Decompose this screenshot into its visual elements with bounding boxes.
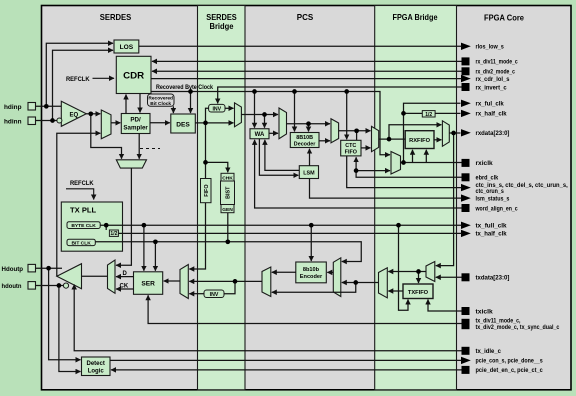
svg-text:1/2: 1/2 — [110, 231, 117, 237]
wire WA down to LSM — [259, 139, 298, 176]
svg-text:rxiclk: rxiclk — [476, 160, 494, 167]
block 8B10B Decoder — [290, 133, 319, 148]
svg-text:Hdoutp: Hdoutp — [2, 266, 24, 273]
wire byte clock drop to WA — [254, 92, 256, 128]
mux D (rx bridge mux) — [235, 103, 242, 127]
svg-text:LOS: LOS — [120, 44, 134, 51]
wire txdata bypass to mux F — [272, 283, 356, 293]
block CHK — [221, 173, 234, 181]
wire LSM up to decoder — [309, 149, 311, 166]
wire 1/2 out to tx_half_clk — [118, 232, 461, 234]
wire tx_idle_c to driver — [74, 285, 461, 351]
svg-text:TXFIFO: TXFIFO — [408, 290, 429, 296]
wire byte clk tap to mux B — [130, 264, 132, 266]
wire mux 5 out to rxdata — [449, 132, 460, 134]
wire PD/Sampler to DES — [150, 122, 170, 124]
svg-text:DES: DES — [176, 122, 190, 129]
wire data drop to WA — [264, 115, 266, 128]
pad hdoutp — [28, 264, 36, 272]
wire recovered byte clock trunk — [151, 92, 390, 155]
pad hdinp — [28, 103, 36, 111]
port ebrd_clk — [462, 173, 499, 181]
wire byte clock drop to DES — [190, 92, 192, 114]
port rx_invert_c — [462, 83, 508, 91]
svg-text:RXFIFO: RXFIFO — [409, 138, 430, 144]
svg-text:CK: CK — [120, 284, 129, 290]
mux E (encoder input mux) — [333, 258, 341, 297]
block TXFIFO — [403, 284, 433, 299]
svg-text:Recovered: Recovered — [148, 95, 173, 101]
svg-text:CDR: CDR — [123, 70, 144, 81]
block LOS — [114, 40, 139, 53]
wire byte clk to TXFIFO bottom — [399, 225, 409, 310]
svg-text:SERDES: SERDES — [206, 13, 237, 22]
wire mux 2 out to mux 3 — [339, 130, 371, 132]
port pcie_con_s — [461, 357, 543, 365]
svg-text:rxdata[23:0]: rxdata[23:0] — [476, 130, 510, 137]
svg-text:tx_div2_mode_c, tx_sync_dual_c: tx_div2_mode_c, tx_sync_dual_c — [476, 324, 560, 331]
svg-text:BIST: BIST — [225, 186, 231, 199]
wire LSM status to lsm_status_s — [310, 179, 462, 199]
svg-text:hdinp: hdinp — [4, 104, 22, 111]
wire byte clk drop to encoder — [310, 225, 312, 261]
wire mux 6 out to mux 7 — [388, 271, 426, 273]
funnel mux below PD/Sampler — [116, 160, 146, 168]
wire byte clock drop to CTC FIFO — [346, 92, 348, 140]
wire mux C out to SER — [164, 280, 180, 282]
block Detect Logic — [82, 357, 111, 376]
svg-text:TX PLL: TX PLL — [70, 206, 97, 215]
block 1/2 divider (rx) — [422, 111, 435, 118]
block CDR — [116, 56, 151, 93]
port rlos_low_s — [461, 43, 504, 51]
wire serial loopback into mux A — [57, 133, 101, 276]
svg-text:SERDES: SERDES — [100, 12, 132, 22]
mux 3 (ctc bypass) — [372, 126, 379, 151]
wire RXFIFO out to mux 5 — [434, 139, 441, 141]
block BIT CLK — [67, 239, 95, 246]
svg-text:FIFO: FIFO — [345, 150, 357, 156]
wire hdoutp sense down to Detect Logic — [49, 268, 81, 360]
block BYTE CLK — [67, 222, 100, 229]
FPGA Bridge green band — [375, 6, 457, 390]
mux 6 (txfifo input mux) — [426, 262, 435, 282]
wire rx_invert_c to INV rx — [218, 87, 462, 103]
svg-text:tx_full_clk: tx_full_clk — [476, 223, 508, 230]
svg-text:pcie_det_en_c, pcie_ct_c: pcie_det_en_c, pcie_ct_c — [476, 367, 544, 374]
wire txiclk to TXFIFO — [428, 300, 462, 312]
port txdata[23:0] — [462, 273, 510, 281]
wire mux F out to mux C — [189, 280, 262, 282]
SERDES Bridge green band — [198, 6, 246, 390]
wire rx_half_clk through divider — [404, 112, 461, 114]
mux C (SER input mux) — [180, 265, 188, 299]
wire hdinp sense up to LOS — [46, 43, 113, 106]
wire txdata to mux 6 — [436, 276, 462, 278]
port tx_full_clk — [461, 222, 507, 230]
svg-text:1/2: 1/2 — [425, 112, 432, 118]
wire DES loopback trunk to FIFO and mux C — [189, 123, 205, 269]
svg-text:REFCLK: REFCLK — [70, 180, 94, 187]
port tx_div11_mode_c — [462, 318, 560, 332]
wire DES out to mux D — [195, 122, 233, 124]
wire hdinn to EQ bubble — [36, 120, 58, 122]
svg-text:hdinn: hdinn — [4, 118, 22, 125]
mux 4 (rx clock select) — [391, 152, 401, 175]
svg-text:INV: INV — [212, 106, 221, 112]
port tx_idle_c — [462, 347, 502, 355]
port rxdata[23:0] — [461, 129, 509, 137]
svg-text:rx_ful_clk: rx_ful_clk — [476, 101, 505, 108]
svg-text:PD/: PD/ — [130, 117, 141, 124]
block 1/2 divider (tx) — [109, 230, 118, 237]
svg-text:WA: WA — [255, 132, 265, 138]
port tx_half_clk — [461, 230, 507, 238]
port rx_div11_mode_c — [462, 57, 519, 65]
wire BYTE CLK to tx_full_clk — [100, 224, 461, 226]
wire hdinp to EQ — [36, 105, 62, 107]
svg-text:GEN: GEN — [222, 207, 233, 213]
svg-text:rx_div2_mode_c: rx_div2_mode_c — [476, 69, 516, 76]
svg-text:8B10B: 8B10B — [296, 135, 313, 141]
svg-text:rlos_low_s: rlos_low_s — [476, 44, 505, 51]
wire rx_div2_mode_c to CDR — [152, 70, 462, 72]
wire REFCLK to CDR — [93, 77, 115, 79]
block CTC FIFO — [341, 140, 361, 156]
wire TXFIFO out to mux 7 — [402, 290, 404, 292]
block GEN — [221, 205, 234, 214]
svg-text:word_align_en_c: word_align_en_c — [475, 205, 518, 212]
wire bit clk drop to SER — [154, 242, 156, 271]
svg-text:Bridge: Bridge — [210, 22, 235, 31]
port pcie_det_en_c — [462, 366, 544, 374]
svg-text:CTC: CTC — [345, 143, 356, 149]
svg-text:Recovered Byte Clock: Recovered Byte Clock — [156, 84, 213, 91]
mux 5 (rxfifo bypass) — [442, 121, 449, 147]
svg-text:rx_invert_c: rx_invert_c — [476, 84, 508, 91]
svg-text:tx_idle_c: tx_idle_c — [476, 348, 502, 355]
block INV (tx loopback) — [204, 290, 224, 298]
pad hdoutn — [28, 282, 36, 290]
wire Detect Logic to pcie_con_s — [110, 359, 462, 361]
wire byte clk drop to SER — [143, 225, 145, 271]
wire driver bubble to hdoutn pad — [36, 285, 64, 287]
block DES — [171, 114, 196, 133]
wire mux 3 out to RXFIFO — [379, 138, 406, 140]
wire mux B out to driver — [82, 275, 108, 277]
wire drop to decoder top — [308, 124, 310, 132]
dashed continuation marks — [140, 148, 160, 150]
mux 7 (txfifo bypass) — [379, 268, 388, 298]
wire EQ tap down to funnel — [91, 114, 122, 159]
svg-text:rx_div11_mode_c: rx_div11_mode_c — [476, 59, 519, 66]
wire recovered bit clock to DES — [172, 106, 174, 113]
svg-text:hdoutn: hdoutn — [2, 283, 22, 290]
svg-text:rx_half_clk: rx_half_clk — [476, 111, 508, 118]
wire hdoutn sense down to Detect Logic — [59, 286, 81, 372]
wire decoder out to mux 2 — [319, 140, 330, 142]
block SER — [134, 272, 163, 295]
wire GEN down to bit clock line — [227, 213, 229, 242]
wire mux E out to encoder — [327, 271, 333, 273]
svg-text:FIFO: FIFO — [204, 184, 210, 196]
wire SER CK output to mux B — [116, 288, 134, 290]
wire PD/Sampler up to CDR — [125, 95, 127, 114]
port rx_cdr_lol_s — [461, 75, 510, 83]
wire WA out to mux 1 — [269, 132, 278, 134]
wire rxdata loopback to mux 6 — [436, 133, 454, 266]
block 8b10b Encoder — [296, 262, 327, 283]
wire byte clock drop to decoder — [294, 92, 296, 132]
wire loopback branch to CHK — [206, 162, 228, 172]
mux B (output driver mux) — [108, 260, 116, 293]
svg-text:FPGA Bridge: FPGA Bridge — [393, 13, 438, 22]
port rx_div2_mode_c — [462, 67, 516, 75]
wire BIT CLK line to mux E — [95, 242, 361, 262]
wire EQ out to mux A — [86, 113, 100, 115]
svg-text:Encoder: Encoder — [300, 274, 323, 280]
wire CDR down to PD/Sampler — [139, 94, 141, 113]
wire mux 4 out — [401, 162, 462, 164]
block PD/Sampler — [121, 114, 150, 134]
block TX PLL — [61, 202, 122, 251]
wire SER D output to mux B — [116, 276, 134, 278]
svg-text:REFCLK: REFCLK — [66, 76, 90, 83]
wire INV rx to mux D — [225, 107, 234, 109]
pad hdinn — [28, 117, 36, 125]
svg-text:SER: SER — [141, 281, 155, 288]
svg-text:INV: INV — [210, 292, 219, 298]
wire REFCLK to TX PLL — [66, 189, 94, 200]
wire mux A to PD/Sampler — [111, 122, 120, 124]
svg-text:LSM: LSM — [303, 171, 315, 177]
wire ebrd tap to mux 4 — [356, 170, 390, 172]
svg-text:tx_half_clk: tx_half_clk — [476, 231, 508, 238]
block RXFIFO — [405, 131, 434, 149]
wire tap down into INV tx — [224, 281, 235, 293]
mux A (EQ output mux) — [101, 110, 111, 139]
wire funnel output down to mux B — [116, 168, 131, 265]
port rx_ful_clk — [461, 100, 504, 108]
svg-text:lsm_status_s: lsm_status_s — [476, 195, 510, 202]
block FIFO (loopback) — [201, 179, 212, 203]
wire driver to hdoutp pad — [36, 267, 63, 269]
port rxiclk — [462, 159, 494, 167]
wire tx_div modes to SER — [148, 295, 461, 323]
wire encoder out to mux F — [272, 271, 296, 273]
svg-text:ebrd_clk: ebrd_clk — [476, 175, 499, 182]
wire ebrd_clk to CTC FIFO — [356, 157, 461, 177]
buffer EQ — [57, 101, 86, 126]
wire mux D output to mux 1 — [241, 114, 278, 116]
svg-text:BYTE CLK: BYTE CLK — [71, 223, 96, 229]
wire CTC status to ctc_ins_s — [347, 156, 462, 188]
port word_align_en_c — [462, 204, 519, 212]
svg-text:FPGA Core: FPGA Core — [484, 14, 524, 23]
mux 2 (decoder bypass) — [331, 119, 339, 143]
wire mux 7 out to mux E — [342, 282, 379, 284]
block LSM — [299, 166, 318, 179]
port ctc_ins_s — [461, 182, 568, 195]
wire byte clk drop to 1/2 — [105, 225, 107, 230]
svg-text:Logic: Logic — [88, 368, 105, 374]
svg-text:rx_cdr_lol_s: rx_cdr_lol_s — [476, 76, 510, 83]
wire CDR to rx_cdr_lol_s — [151, 78, 462, 80]
port rx_half_clk — [461, 110, 507, 118]
svg-text:8b10b: 8b10b — [303, 267, 320, 273]
block BIST — [221, 181, 235, 205]
svg-text:txiclk: txiclk — [476, 308, 494, 315]
buffer output driver triangle — [57, 264, 82, 289]
mux F (encoder bypass mux) — [262, 267, 271, 297]
wire bypass up to mux 5 — [389, 125, 441, 139]
svg-text:BIT CLK: BIT CLK — [71, 240, 91, 246]
wire DES tap up into INV rx — [206, 108, 209, 123]
svg-text:PCS: PCS — [297, 13, 314, 22]
svg-text:pcie_con_s, pcie_done__s: pcie_con_s, pcie_done__s — [476, 358, 544, 365]
svg-text:Sampler: Sampler — [123, 125, 148, 132]
wire CTC FIFO out to mux 3 — [361, 147, 371, 149]
svg-text:D: D — [123, 271, 128, 277]
label box Recovered Bit Clock — [148, 94, 175, 107]
wire tap down into CTC FIFO top — [356, 131, 358, 141]
wire PD/Sampler bottom to funnel — [138, 134, 140, 159]
svg-text:ctc_orun_s: ctc_orun_s — [476, 188, 505, 195]
wire mux 1 out to mux 2 — [287, 123, 331, 125]
wire rxiclk up to RXFIFO — [412, 150, 414, 163]
block INV (rx polarity) — [209, 104, 225, 112]
svg-text:txdata[23:0]: txdata[23:0] — [476, 275, 510, 282]
wire rxiclk up to RXFIFO right — [425, 150, 427, 163]
wire INV tx out to mux C — [189, 293, 204, 295]
svg-text:EQ: EQ — [70, 112, 79, 118]
svg-text:Decoder: Decoder — [294, 142, 316, 148]
wire LSM out up to WA — [265, 140, 299, 171]
block WA — [250, 129, 269, 139]
svg-text:Bit Clock: Bit Clock — [150, 101, 171, 107]
wire rx clock trunk to rx_ful_clk — [404, 103, 461, 162]
wire pcie_det_en_c to Detect Logic — [111, 369, 462, 371]
wire LOS output to rlos_low_s — [139, 45, 462, 47]
svg-text:Detect: Detect — [87, 361, 105, 367]
mux 1 (word align bypass) — [279, 108, 287, 139]
wire word_align_en_c to WA — [255, 140, 462, 208]
wire hdinn sense up to LOS — [53, 50, 114, 120]
port txiclk — [462, 307, 494, 315]
wire rx_div11_mode_c to CDR — [152, 60, 462, 62]
port lsm_status_s — [461, 194, 510, 202]
wire tap down into TXFIFO top — [418, 272, 420, 284]
